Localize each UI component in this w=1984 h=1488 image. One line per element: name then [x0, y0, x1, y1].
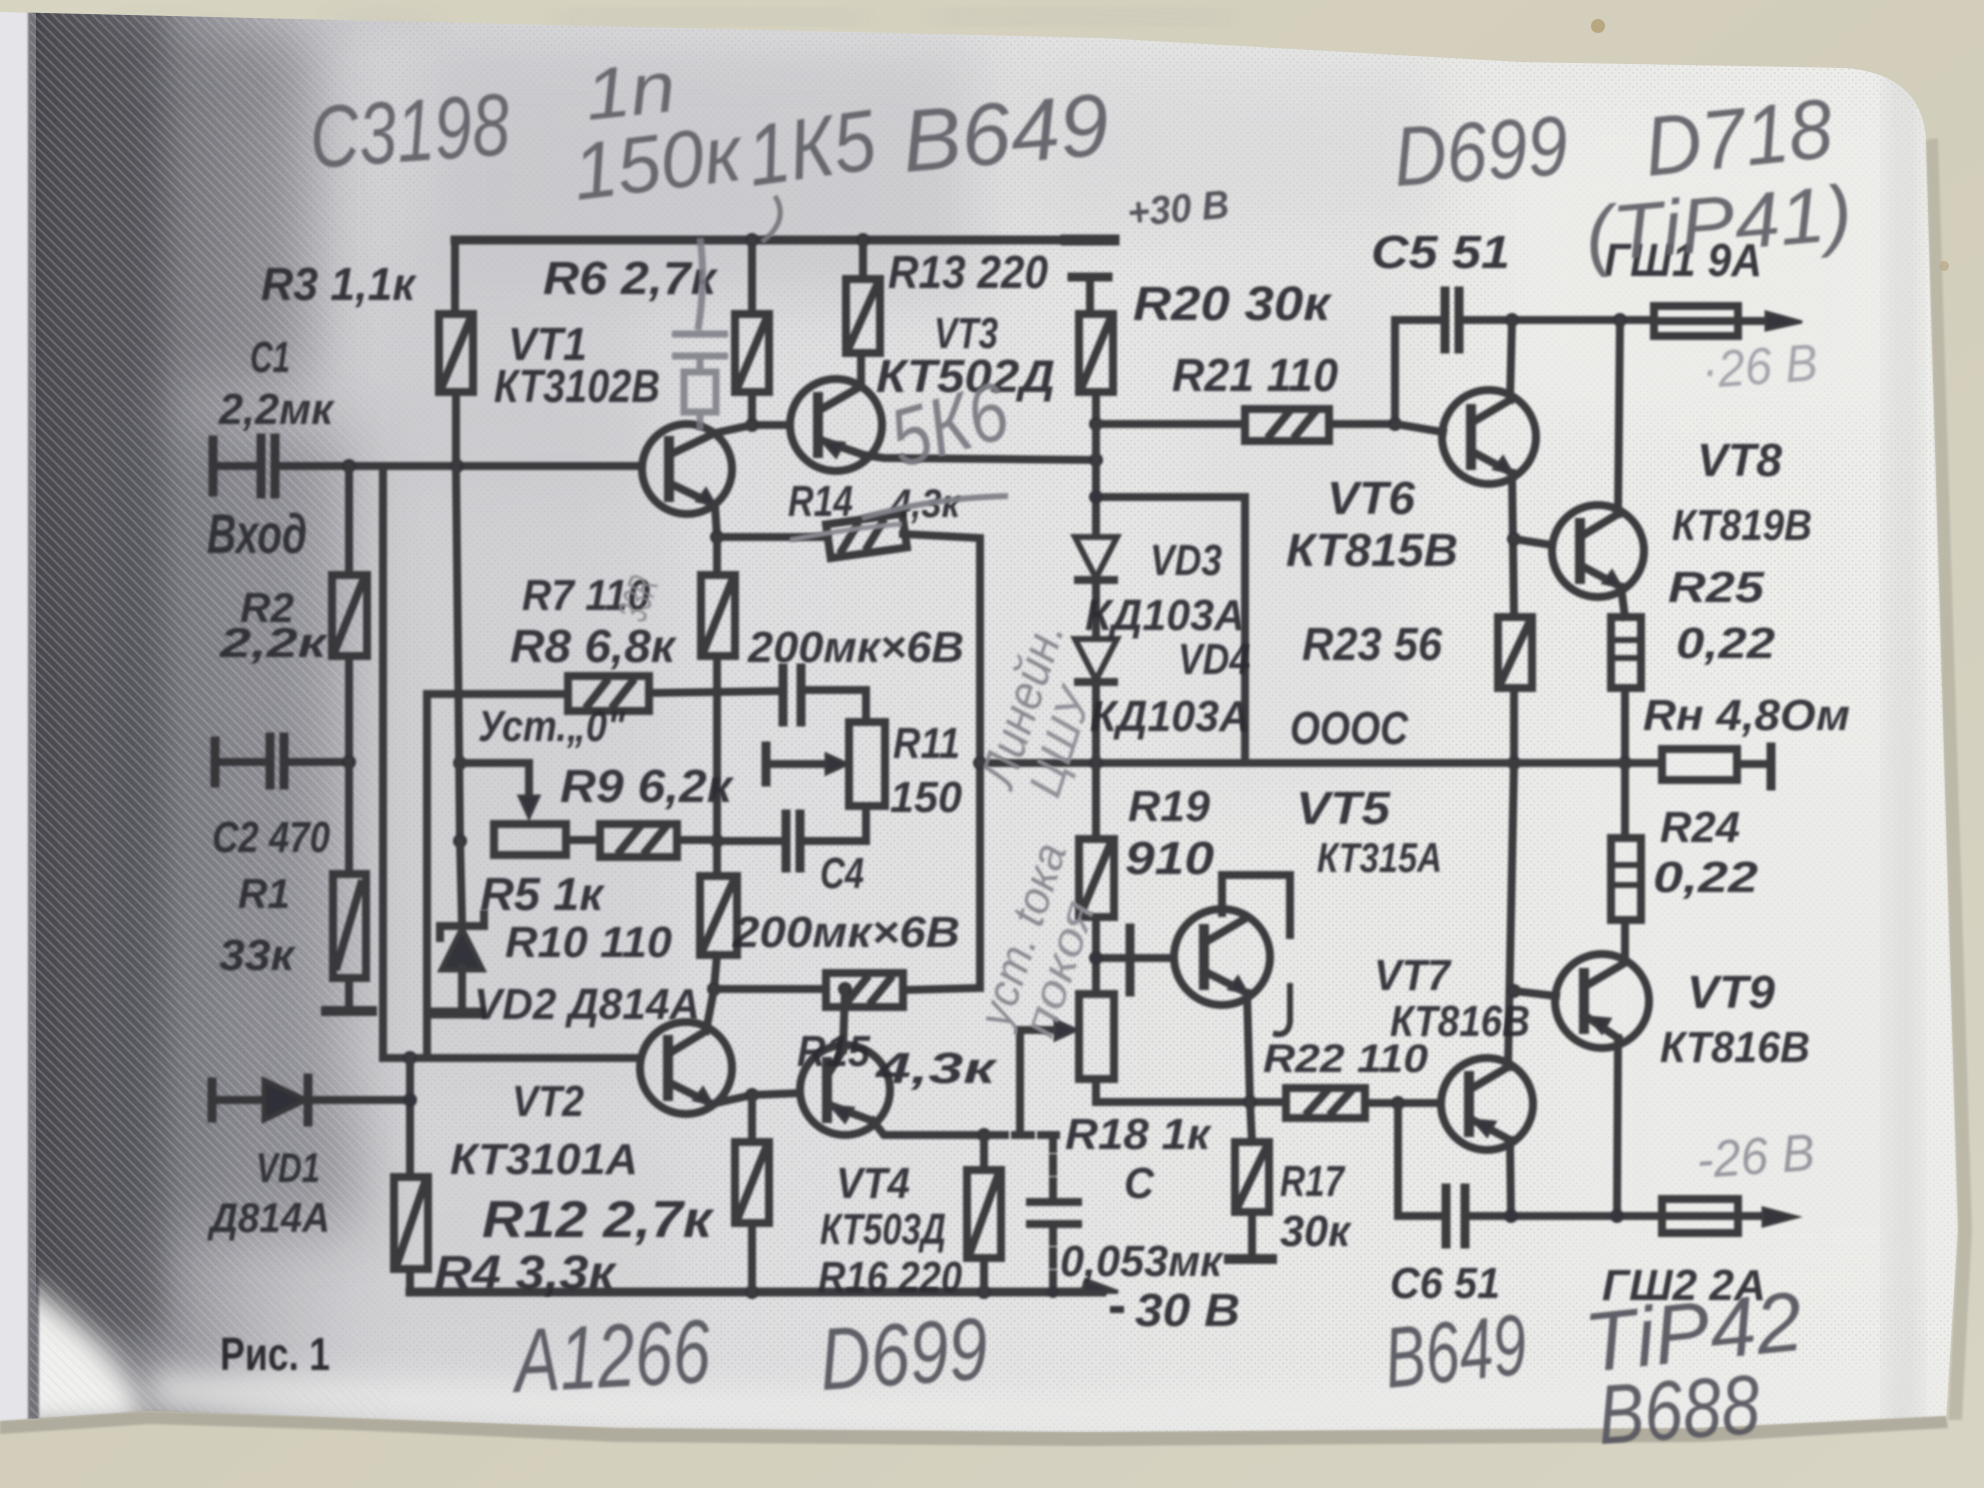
wire R19 top lead: [1092, 763, 1100, 839]
wire VT4 base lead: [752, 1093, 800, 1095]
node R10/VT2 collector/R15: [707, 982, 721, 996]
terminal VD1 bar: [208, 1082, 217, 1118]
svg-text:0,22: 0,22: [1653, 853, 1759, 902]
wire R9 right lead: [677, 836, 717, 844]
svg-text:A1266: A1266: [508, 1302, 713, 1412]
transistor VT3 KT502D: [790, 379, 882, 471]
node R16 junction: [977, 1128, 991, 1142]
terminal input jack bar: [209, 440, 218, 492]
wire feedback line to VT2 base: [383, 466, 640, 1058]
resistor Rn load 4-8 Ohm: [1662, 749, 1737, 780]
svg-text:-26 В: -26 В: [1695, 1124, 1817, 1190]
svg-text:+30 В: +30 В: [1126, 183, 1231, 236]
wire R20 node to R21: [1096, 420, 1245, 428]
capacitor C1 2.2uF: [257, 438, 266, 494]
shadow under bottom paper edge: [0, 1411, 1948, 1446]
node R1/R2/C2 junction: [342, 755, 356, 769]
wire VT5 collector hook: [1222, 875, 1290, 935]
wire VT9 base lead: [1514, 991, 1556, 996]
ground bar below R1: [326, 1006, 372, 1016]
svg-text:Уст.„0": Уст.„0": [478, 702, 626, 751]
capacitor C6 51: [1442, 1188, 1451, 1244]
svg-text:30к: 30к: [1280, 1207, 1353, 1256]
capacitor C4 200uF 6V: [782, 814, 791, 868]
svg-text:VT7: VT7: [1374, 951, 1452, 1000]
svg-text:·26 В: ·26 В: [1700, 334, 1820, 400]
wire VD2 top lead: [460, 841, 462, 922]
svg-text:Рис. 1: Рис. 1: [220, 1328, 330, 1380]
wire R12 bottom lead: [748, 1223, 756, 1292]
resistor R12 2.7k: [735, 1142, 769, 1223]
svg-text:R25: R25: [1668, 563, 1765, 612]
wire thermal box around VD3 VD4: [1096, 497, 1245, 763]
wire C2 to R1/R2 node: [286, 758, 349, 766]
svg-text:КТ503Д: КТ503Д: [820, 1205, 946, 1254]
resistor R20 30k: [1079, 314, 1113, 392]
svg-text:Вход: Вход: [207, 502, 307, 565]
node rail-R13 junction: [856, 233, 870, 247]
node VD1/R4 on VT2 base line: [403, 1051, 417, 1065]
svg-text:910: 910: [1125, 832, 1214, 884]
svg-text:C1: C1: [250, 333, 290, 382]
wire VD3 to VD4: [1092, 580, 1100, 637]
node rail/R12 junction: [745, 1285, 759, 1299]
wire R10 top lead: [713, 841, 721, 876]
wire C3 to R11 top: [803, 690, 866, 722]
svg-text:Rн 4,8Ом: Rн 4,8Ом: [1643, 691, 1850, 740]
wire corner to C5: [1395, 316, 1443, 324]
node VT9 base junction: [1507, 984, 1521, 998]
resistor R25 0.22 (striped): [1611, 617, 1641, 688]
resistor R10 110: [700, 876, 737, 955]
resistor R22 110: [1286, 1088, 1365, 1118]
wire R3 top lead from rail: [451, 240, 459, 314]
svg-text:C2 470: C2 470: [212, 813, 330, 862]
soft tone patches on paper: [420, 40, 980, 300]
wire R3 bottom lead: [452, 392, 460, 466]
wire VT5 base lead: [1096, 954, 1174, 962]
pencil capacitor sketch over R6: [672, 238, 728, 430]
potentiometer R18 1k: [1079, 994, 1114, 1079]
svg-text:150: 150: [890, 773, 963, 822]
resistor R15 4.3k: [826, 973, 903, 1007]
terminal C2 bar: [211, 741, 220, 783]
diode VD1 D814A: [264, 1080, 306, 1120]
bright strip above bottom edge: [150, 1360, 1950, 1432]
svg-text:КД103А: КД103А: [1085, 591, 1245, 640]
svg-text:КТ3102В: КТ3102В: [494, 360, 660, 412]
wire VT8 collector to output line: [1618, 320, 1620, 514]
svg-text:1К5: 1К5: [741, 92, 882, 205]
svg-text:КТ815В: КТ815В: [1286, 524, 1458, 576]
terminal R11 wiper bar: [762, 746, 771, 782]
svg-text:R4 3,3к: R4 3,3к: [434, 1247, 618, 1300]
wire input to C1: [213, 462, 259, 470]
wire VT1 emitter lead: [715, 505, 717, 537]
svg-text:200мк×6В: 200мк×6В: [747, 623, 964, 672]
wire VT8 base lead: [1514, 539, 1552, 545]
svg-text:200мк×6В: 200мк×6В: [732, 908, 960, 957]
wire R2 top lead: [345, 466, 353, 575]
wire R11 wiper arrow: [766, 760, 836, 768]
wire -26V arrow: [1738, 1212, 1775, 1220]
svg-text:R15: R15: [797, 1027, 870, 1076]
svg-text:R11: R11: [893, 719, 960, 768]
wire R3 column down through box: [456, 466, 460, 841]
resistor R13 220: [859, 240, 867, 279]
resistor R14 4.3k (slanted): [826, 514, 907, 558]
resistor R19 910: [1079, 839, 1114, 917]
svg-text:R18 1к: R18 1к: [1065, 1110, 1213, 1159]
svg-text:B688: B688: [1595, 1357, 1763, 1462]
wire R22 to VT7 base: [1365, 1099, 1441, 1107]
svg-text:C4: C4: [820, 849, 864, 898]
svg-text:R20 30к: R20 30к: [1133, 278, 1333, 331]
wire VT6 base lead: [1395, 424, 1443, 432]
potentiometer R11 150: [849, 722, 885, 806]
node C6 branch junction: [1391, 1096, 1405, 1110]
wire VT5 emitter down to R17: [1247, 993, 1250, 1102]
wire R25 bottom to bus: [1621, 688, 1629, 763]
left bright sliver: [0, 0, 36, 1488]
transistor VT9 KT816V: [1555, 954, 1649, 1048]
wire to R14: [717, 533, 828, 541]
svg-text:R9 6,2к: R9 6,2к: [560, 760, 735, 812]
svg-text:VT4: VT4: [836, 1159, 910, 1208]
pencil pointer line from 1K5 to R6 node: [762, 196, 780, 242]
wire VT8 emitter to R25: [1621, 587, 1625, 617]
wire VD2 to ground: [458, 968, 466, 1010]
svg-text:R21 110: R21 110: [1172, 349, 1338, 401]
svg-text:Д814А: Д814А: [207, 1194, 330, 1241]
node R8/R9/C4 junction: [710, 834, 724, 848]
svg-text:VD4: VD4: [1178, 635, 1250, 684]
transistor VT4 KT503D: [800, 1045, 890, 1135]
node input/R2 junction: [342, 459, 356, 473]
wire top supply rail +30V: [455, 236, 1068, 245]
transistor VT8 KT819V: [1552, 505, 1644, 597]
wire C2 left lead: [215, 758, 268, 766]
wire R23 bottom to bus: [1510, 688, 1518, 763]
wire VT4 emitter line: [873, 1121, 989, 1135]
terminal bar below R17: [1229, 1254, 1272, 1264]
resistor R3 1.1k: [439, 314, 473, 392]
wire R21 to VT6 base corner: [1329, 320, 1395, 424]
svg-text:R14: R14: [788, 477, 853, 526]
wire R10 bottom lead: [714, 955, 717, 989]
node input/R3 junction: [450, 459, 464, 473]
pencil strike through R14 value: [862, 496, 1008, 518]
resistor R16 220: [967, 1170, 1001, 1258]
resistor R1 33k: [333, 874, 366, 978]
fuse FU2 2A: [1662, 1199, 1738, 1233]
svg-text:VT9: VT9: [1687, 966, 1775, 1018]
wire VT7 emitter down: [1510, 1140, 1511, 1216]
transistor VT2 KT3101A: [640, 1022, 732, 1114]
svg-text:КТ816В: КТ816В: [1660, 1023, 1810, 1072]
wire VD1 to R4 column: [308, 1096, 410, 1104]
node R25/bus junction: [1618, 756, 1632, 770]
wire R15 to bus column: [903, 988, 980, 990]
terminal speaker bar: [1767, 747, 1776, 786]
wire R8 bottom lead: [713, 656, 721, 841]
svg-text:B649: B649: [898, 74, 1113, 191]
fuse FU1 9A: [1654, 306, 1738, 336]
node R9 wiper corner: [453, 756, 467, 770]
wire C1 to VT1 base: [277, 462, 640, 470]
svg-text:VT6: VT6: [1327, 472, 1415, 524]
svg-text:R16 220: R16 220: [818, 1253, 962, 1302]
node VD1 junction: [403, 1093, 417, 1107]
diode VD4 KD103A: [1075, 639, 1117, 680]
svg-text:4,3к: 4,3к: [875, 1044, 999, 1093]
svg-text:VD3: VD3: [1150, 536, 1222, 585]
wire R13 to VT3 collector: [857, 353, 865, 382]
wire VT7 collector column to bus: [1508, 763, 1514, 1067]
wire bottom supply rail -30V: [410, 1288, 1102, 1297]
svg-text:КД103А: КД103А: [1090, 692, 1250, 741]
node rail-R6 junction: [745, 233, 759, 247]
svg-text:ОООС: ОООС: [1290, 702, 1409, 754]
svg-text:VT2: VT2: [512, 1077, 584, 1126]
wire R20 top lead: [1086, 277, 1094, 314]
svg-text:R12 2,7к: R12 2,7к: [482, 1191, 715, 1249]
svg-text:C5 51: C5 51: [1371, 226, 1510, 278]
wire C4 left lead: [717, 837, 786, 845]
wire R2 bottom lead: [345, 656, 353, 762]
node rail/R16 junction: [977, 1285, 991, 1299]
wire R6 top lead: [748, 240, 756, 314]
svg-text:33к: 33к: [219, 931, 297, 980]
resistor R7 110: [568, 676, 649, 711]
right edge fold shading: [1890, 60, 1916, 1440]
node VT8 collector junction: [1613, 313, 1627, 327]
svg-text:0,053мк: 0,053мк: [1060, 1237, 1225, 1286]
capacitor C5 51: [1441, 291, 1450, 349]
node center column top: [1089, 453, 1103, 467]
resistor R2 2.2k: [332, 575, 367, 656]
node dashed cap / rail: [1047, 1286, 1059, 1298]
transistor VT5 KT315A: [1174, 909, 1270, 1005]
capacitor C2 470: [266, 737, 275, 785]
svg-text:VT5: VT5: [1296, 782, 1392, 834]
wire set-zero top line: [427, 690, 568, 698]
wire Rn to terminal: [1737, 760, 1768, 768]
terminal +30V supply bars: [1066, 235, 1114, 246]
wire VT9 emitter down to rail: [1617, 1038, 1618, 1216]
wire R16 bottom lead: [980, 1258, 988, 1292]
wire R1 bottom lead: [345, 978, 353, 1008]
wire R19 to R18: [1092, 917, 1100, 994]
node VT6 base corner: [1388, 417, 1402, 431]
wire C4 right to R11 bottom: [800, 806, 866, 841]
wire output arrow right: [1738, 317, 1778, 325]
transistor VT1 KT3102V: [642, 424, 732, 514]
node VT5 base junction: [1089, 951, 1103, 965]
resistor R4 3.3k: [394, 1177, 428, 1269]
wire VD4 to bus: [1092, 682, 1100, 763]
wire R8 top lead: [713, 537, 721, 575]
resistor R17 30k: [1235, 1142, 1269, 1212]
wire R18 wiper arrow: [1020, 1026, 1066, 1034]
svg-text:C: C: [1124, 1159, 1155, 1208]
ground bar below VD2: [432, 1008, 480, 1019]
svg-text:R3 1,1к: R3 1,1к: [261, 258, 418, 310]
wire VT6 emitter down to R23: [1512, 473, 1514, 617]
svg-text:2,2к: 2,2к: [219, 619, 329, 666]
resistor R21 110: [1245, 409, 1329, 441]
svg-text:R19: R19: [1128, 782, 1211, 831]
svg-text:D699: D699: [816, 1298, 990, 1408]
transistor VT7 KT816V: [1441, 1058, 1533, 1150]
svg-text:VD2 Д814А: VD2 Д814А: [474, 980, 700, 1029]
diode VD2 zener D814A: [441, 928, 483, 970]
svg-text:VT8: VT8: [1697, 434, 1782, 486]
wire wiper down to VT4 emitter dash line: [1016, 1030, 1024, 1133]
node VT6 collector junction: [1505, 313, 1519, 327]
wire VD1 left lead: [212, 1096, 262, 1104]
white curled edge bottom-left: [0, 1262, 146, 1432]
wire R17 bottom lead: [1248, 1212, 1256, 1256]
resistor R6 2.7k: [735, 314, 769, 392]
potentiometer R5 1k: [494, 824, 566, 855]
node VT9 emitter junction: [1610, 1209, 1624, 1223]
wire R15 line: [714, 985, 826, 993]
wire R5 to R9: [566, 836, 600, 844]
wire R14 to feedback column: [903, 534, 980, 988]
wire VT6 collector to output line: [1510, 320, 1512, 400]
capacitor bar by VT5 base: [1126, 928, 1135, 992]
svg-text:R22 110: R22 110: [1263, 1037, 1428, 1081]
wire R12 top lead: [748, 1095, 756, 1142]
wire R20 bottom lead: [1092, 392, 1100, 424]
svg-text:D699: D699: [1391, 98, 1571, 204]
node R23/bus junction: [1507, 756, 1521, 770]
wire VT3 emitter line to center column: [864, 455, 1096, 460]
wire R4 bottom lead: [406, 1269, 414, 1292]
diode VD3 KD103A: [1092, 460, 1100, 535]
wire VT4 collector up to R15 line: [843, 989, 845, 1050]
svg-text:R8 6,8к: R8 6,8к: [510, 620, 678, 672]
svg-text:КТ819В: КТ819В: [1672, 501, 1812, 550]
wire R24 to VT9 collector: [1621, 920, 1629, 961]
svg-text:R17: R17: [1280, 1157, 1346, 1206]
wire VT2 emitter to R12 node: [712, 1095, 752, 1104]
node VT4 collector junction: [838, 982, 852, 996]
svg-text:R13 220: R13 220: [888, 246, 1048, 298]
wire dashed to C 0.033: [989, 1131, 1056, 1139]
node VT1 emitter / R14 junction: [710, 530, 724, 544]
svg-text:КТ315А: КТ315А: [1317, 834, 1442, 881]
resistor R9 6.2k: [600, 824, 677, 857]
wire R1 top lead: [345, 762, 353, 874]
node VT7 emitter junction: [1504, 1209, 1518, 1223]
node diode-chain/bus junction: [1089, 756, 1103, 770]
node R20/R21 junction: [1089, 417, 1103, 431]
svg-text:VD1: VD1: [256, 1144, 320, 1191]
wire R5 wiper branch: [460, 763, 529, 806]
capacitor C3 200uF 6V: [779, 668, 788, 722]
svg-text:КТ3101А: КТ3101А: [450, 1135, 638, 1184]
wire R16 top lead: [980, 1135, 988, 1170]
svg-text:30 В: 30 В: [1135, 1284, 1240, 1336]
wire VT2 collector up to R15 line: [706, 989, 714, 1031]
svg-text:R5 1к: R5 1к: [480, 868, 606, 920]
svg-text:0,22: 0,22: [1676, 619, 1776, 668]
resistor R24 0.22 (striped): [1621, 763, 1629, 838]
wire bottom right rail: [1467, 1212, 1662, 1220]
wire output top line: [1461, 316, 1652, 324]
wire R6 bottom to VT3 base node: [752, 392, 788, 425]
transistor VT6 KT815V: [1442, 390, 1536, 484]
svg-text:2,2мк: 2,2мк: [218, 385, 336, 434]
svg-text:R24: R24: [1660, 803, 1740, 852]
svg-text:C3198: C3198: [306, 74, 512, 187]
node box top corner: [1089, 490, 1103, 504]
resistor R23 56: [1498, 617, 1532, 688]
resistor R8 6.8k: [701, 575, 735, 656]
terminal arrow -30V: [1082, 1280, 1118, 1292]
wire R4 column upper: [406, 1058, 414, 1177]
capacitor C 0.033uF (dashed option): [1049, 1135, 1057, 1198]
wire OOC feedback bus: [980, 759, 1662, 767]
wire set-zero box left edge: [423, 694, 431, 1058]
wire R17 top lead: [1250, 1102, 1252, 1142]
node VT8 base junction: [1507, 532, 1521, 546]
svg-text:R10 110: R10 110: [505, 918, 673, 967]
node VT1 collector / VT3 base: [745, 418, 759, 432]
wire R18 bottom to R22 line: [1096, 1079, 1286, 1102]
node R22/VT5 emitter junction: [1243, 1095, 1257, 1109]
wire center column R20 to diodes: [1092, 424, 1100, 535]
node VT2 emitter / VT4 base: [745, 1088, 759, 1102]
node R14 column / OOC bus: [973, 756, 987, 770]
svg-text:B649: B649: [1380, 1297, 1531, 1407]
svg-text:R6 2,7к: R6 2,7к: [543, 252, 719, 304]
dark left band (shadow showing through curled edge): [30, 0, 430, 1488]
svg-text:R1: R1: [238, 870, 290, 917]
node R5 left junction: [453, 834, 467, 848]
svg-text:R23 56: R23 56: [1302, 618, 1442, 670]
pencil ghost marks top left: [100, 21, 440, 95]
wire R7 to C3: [649, 691, 781, 693]
wire C6 branch down: [1398, 1103, 1443, 1216]
